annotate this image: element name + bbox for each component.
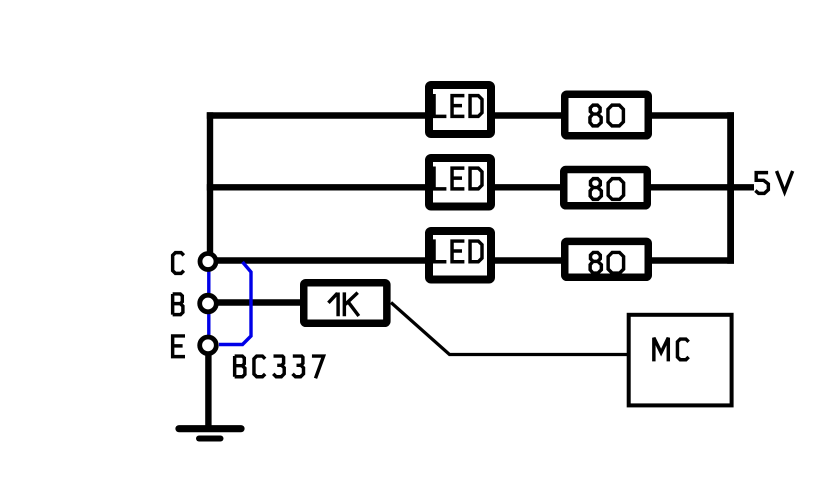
label BC337: [235, 356, 324, 378]
resistor R4 1K box: [304, 283, 387, 324]
ground symbol: [179, 429, 241, 439]
wire: right vertical bus (5V rail): [727, 112, 734, 264]
LED D2 box: [429, 158, 491, 207]
resistor R3 80 box: [565, 241, 649, 277]
resistor R1 80 box: [565, 94, 649, 136]
node C pin circle: [200, 254, 216, 270]
wire: row 2 horizontal (middle LED branch with 5V stub): [207, 184, 754, 190]
MC box U1: [629, 315, 732, 406]
wire: emitter wire to ground: [205, 350, 211, 427]
net label 5V: [755, 171, 792, 193]
node B pin circle: [200, 295, 217, 312]
wire: row 1 horizontal (top LED branch): [207, 112, 734, 119]
transistor Q1 BC337 outline (blue): [209, 262, 251, 345]
wire: thin wire from 1K to MC: [391, 303, 628, 355]
label B: [173, 294, 183, 315]
label C: [173, 253, 184, 274]
label E: [173, 336, 185, 357]
wire: row 3 horizontal (bottom LED branch from collector): [212, 257, 734, 264]
node E pin circle: [200, 337, 217, 354]
resistor R2 80 box: [564, 170, 648, 206]
LED D1 box: [429, 85, 491, 134]
wire: base wire from B node to 1K resistor: [212, 299, 303, 305]
LED D3 box: [429, 231, 491, 280]
wire: left vertical bus from row1 to C node: [207, 112, 213, 253]
